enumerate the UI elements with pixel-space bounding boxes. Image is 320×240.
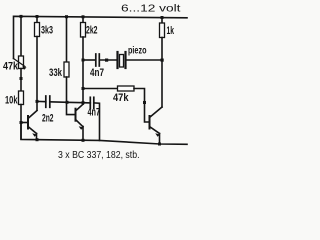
label: 2n2 value	[42, 113, 54, 125]
node: junction on Q3 base drop	[143, 101, 146, 104]
transistor Q2 (BC337)	[76, 104, 84, 140]
svg-text:47k: 47k	[3, 61, 19, 73]
svg-text:10k: 10k	[5, 95, 18, 107]
svg-text:6...12 volt: 6...12 volt	[121, 4, 181, 15]
svg-text:47k: 47k	[113, 92, 129, 104]
transistor Q1 (BC337)	[21, 111, 37, 140]
svg-text:piezo: piezo	[128, 46, 147, 57]
label: 2k2 value	[86, 25, 98, 37]
resistor 33k	[64, 62, 69, 77]
svg-text:4n7: 4n7	[88, 107, 101, 119]
wire: cap to piezo	[99, 59, 116, 61]
svg-text:4n7: 4n7	[90, 67, 104, 79]
wire: chain2 right segment	[83, 102, 90, 104]
wire: chain2 to Q2 collector column	[67, 101, 84, 103]
wire: 1k bottom to Q3 collector	[161, 38, 163, 108]
label: 4n7 upper value	[90, 67, 104, 79]
wire: chain1 from 2k2 column to coupling cap	[83, 59, 96, 61]
wire: 2k2 top lead	[82, 17, 84, 23]
node: junction 1k / piezo / Q3 collector	[161, 59, 164, 62]
wire: 47k feedback left segment	[83, 88, 118, 90]
svg-text:33k: 33k	[49, 67, 63, 79]
node: top rail junction at x=162	[161, 16, 164, 19]
node: Q3 emitter on ground rail	[158, 143, 161, 146]
label: 1k value	[167, 25, 175, 37]
node: top rail junction at x=66.5	[65, 15, 68, 18]
wire: 3k3 top lead	[36, 17, 38, 23]
node: junction 33k / Q2 base	[66, 101, 69, 104]
svg-text:1k: 1k	[167, 25, 175, 37]
wire: 10k bottom to ground corner	[20, 105, 22, 140]
wire: lower 4n7 to ground rail	[94, 103, 100, 140]
transistor Q3 (BC337)	[150, 107, 163, 144]
label: 3k3 value	[41, 25, 53, 37]
wire: 47k to Q3 base	[134, 89, 150, 123]
label: 47k feedback value	[113, 92, 129, 104]
label: piezo	[128, 46, 147, 57]
node: junction below pot	[20, 77, 23, 80]
wire: 33k bottom to chain2	[66, 77, 68, 102]
svg-text:2n2: 2n2	[42, 113, 54, 125]
label: caption 3 x BC 337, 182, stb.	[58, 150, 140, 161]
wire: top positive supply rail	[14, 16, 188, 58]
wire: chain2 left segment from Q1 collector column	[37, 100, 46, 102]
piezo transducer	[118, 52, 126, 68]
node: junction on piezo line	[105, 59, 108, 62]
wire: 2k2 bottom / Q2 collector column	[82, 37, 84, 104]
node: Q1 emitter on ground rail	[36, 138, 39, 141]
wire: pot top lead	[20, 16, 22, 56]
svg-text:3k3: 3k3	[41, 25, 53, 37]
wire: 1k top lead	[161, 18, 163, 24]
resistor 47k (horizontal)	[118, 86, 135, 91]
node: Q2 emitter on ground rail	[82, 139, 85, 142]
capacitor 4n7 (upper)	[96, 54, 100, 66]
node: junction 2k2 / coupling cap	[82, 59, 85, 62]
wire: 3k3 bottom to Q1 collector	[36, 37, 38, 111]
label: 10k value	[5, 95, 18, 107]
label: 33k value	[49, 67, 63, 79]
resistor 10k	[19, 91, 24, 105]
potentiometer 47k	[14, 56, 27, 70]
label: 4n7 lower value	[88, 107, 101, 119]
wire: 2n2 to 33k junction	[50, 101, 67, 104]
capacitor 4n7 (lower)	[90, 97, 94, 108]
node: Q1 base junction	[20, 121, 23, 124]
svg-text:3 x BC 337, 182, stb.: 3 x BC 337, 182, stb.	[58, 150, 140, 161]
wire: piezo to 1k column	[127, 59, 163, 61]
capacitor 2n2	[46, 96, 50, 107]
node: top rail junction at x=21	[20, 15, 23, 18]
wire: 33k top lead	[66, 17, 68, 62]
resistor 2k2	[81, 23, 86, 38]
node: top rail junction at x=83	[82, 15, 85, 18]
label: 47k pot value	[3, 61, 19, 73]
wire: pot bottom to 10k	[20, 69, 22, 92]
wire: bottom ground rail	[21, 123, 187, 145]
node: junction Q2 collector / chain2	[82, 101, 85, 104]
wire: Q2 base feed	[67, 102, 76, 114]
node: top rail junction at x=37	[36, 15, 39, 18]
svg-text:2k2: 2k2	[86, 25, 98, 37]
node: junction 47k feedback tap	[82, 87, 85, 90]
resistor 3k3	[35, 23, 40, 37]
resistor 1k	[160, 23, 165, 38]
label: supply voltage 6...12 volt	[121, 4, 181, 15]
node: junction 3k3/2n2 chain	[36, 100, 39, 103]
